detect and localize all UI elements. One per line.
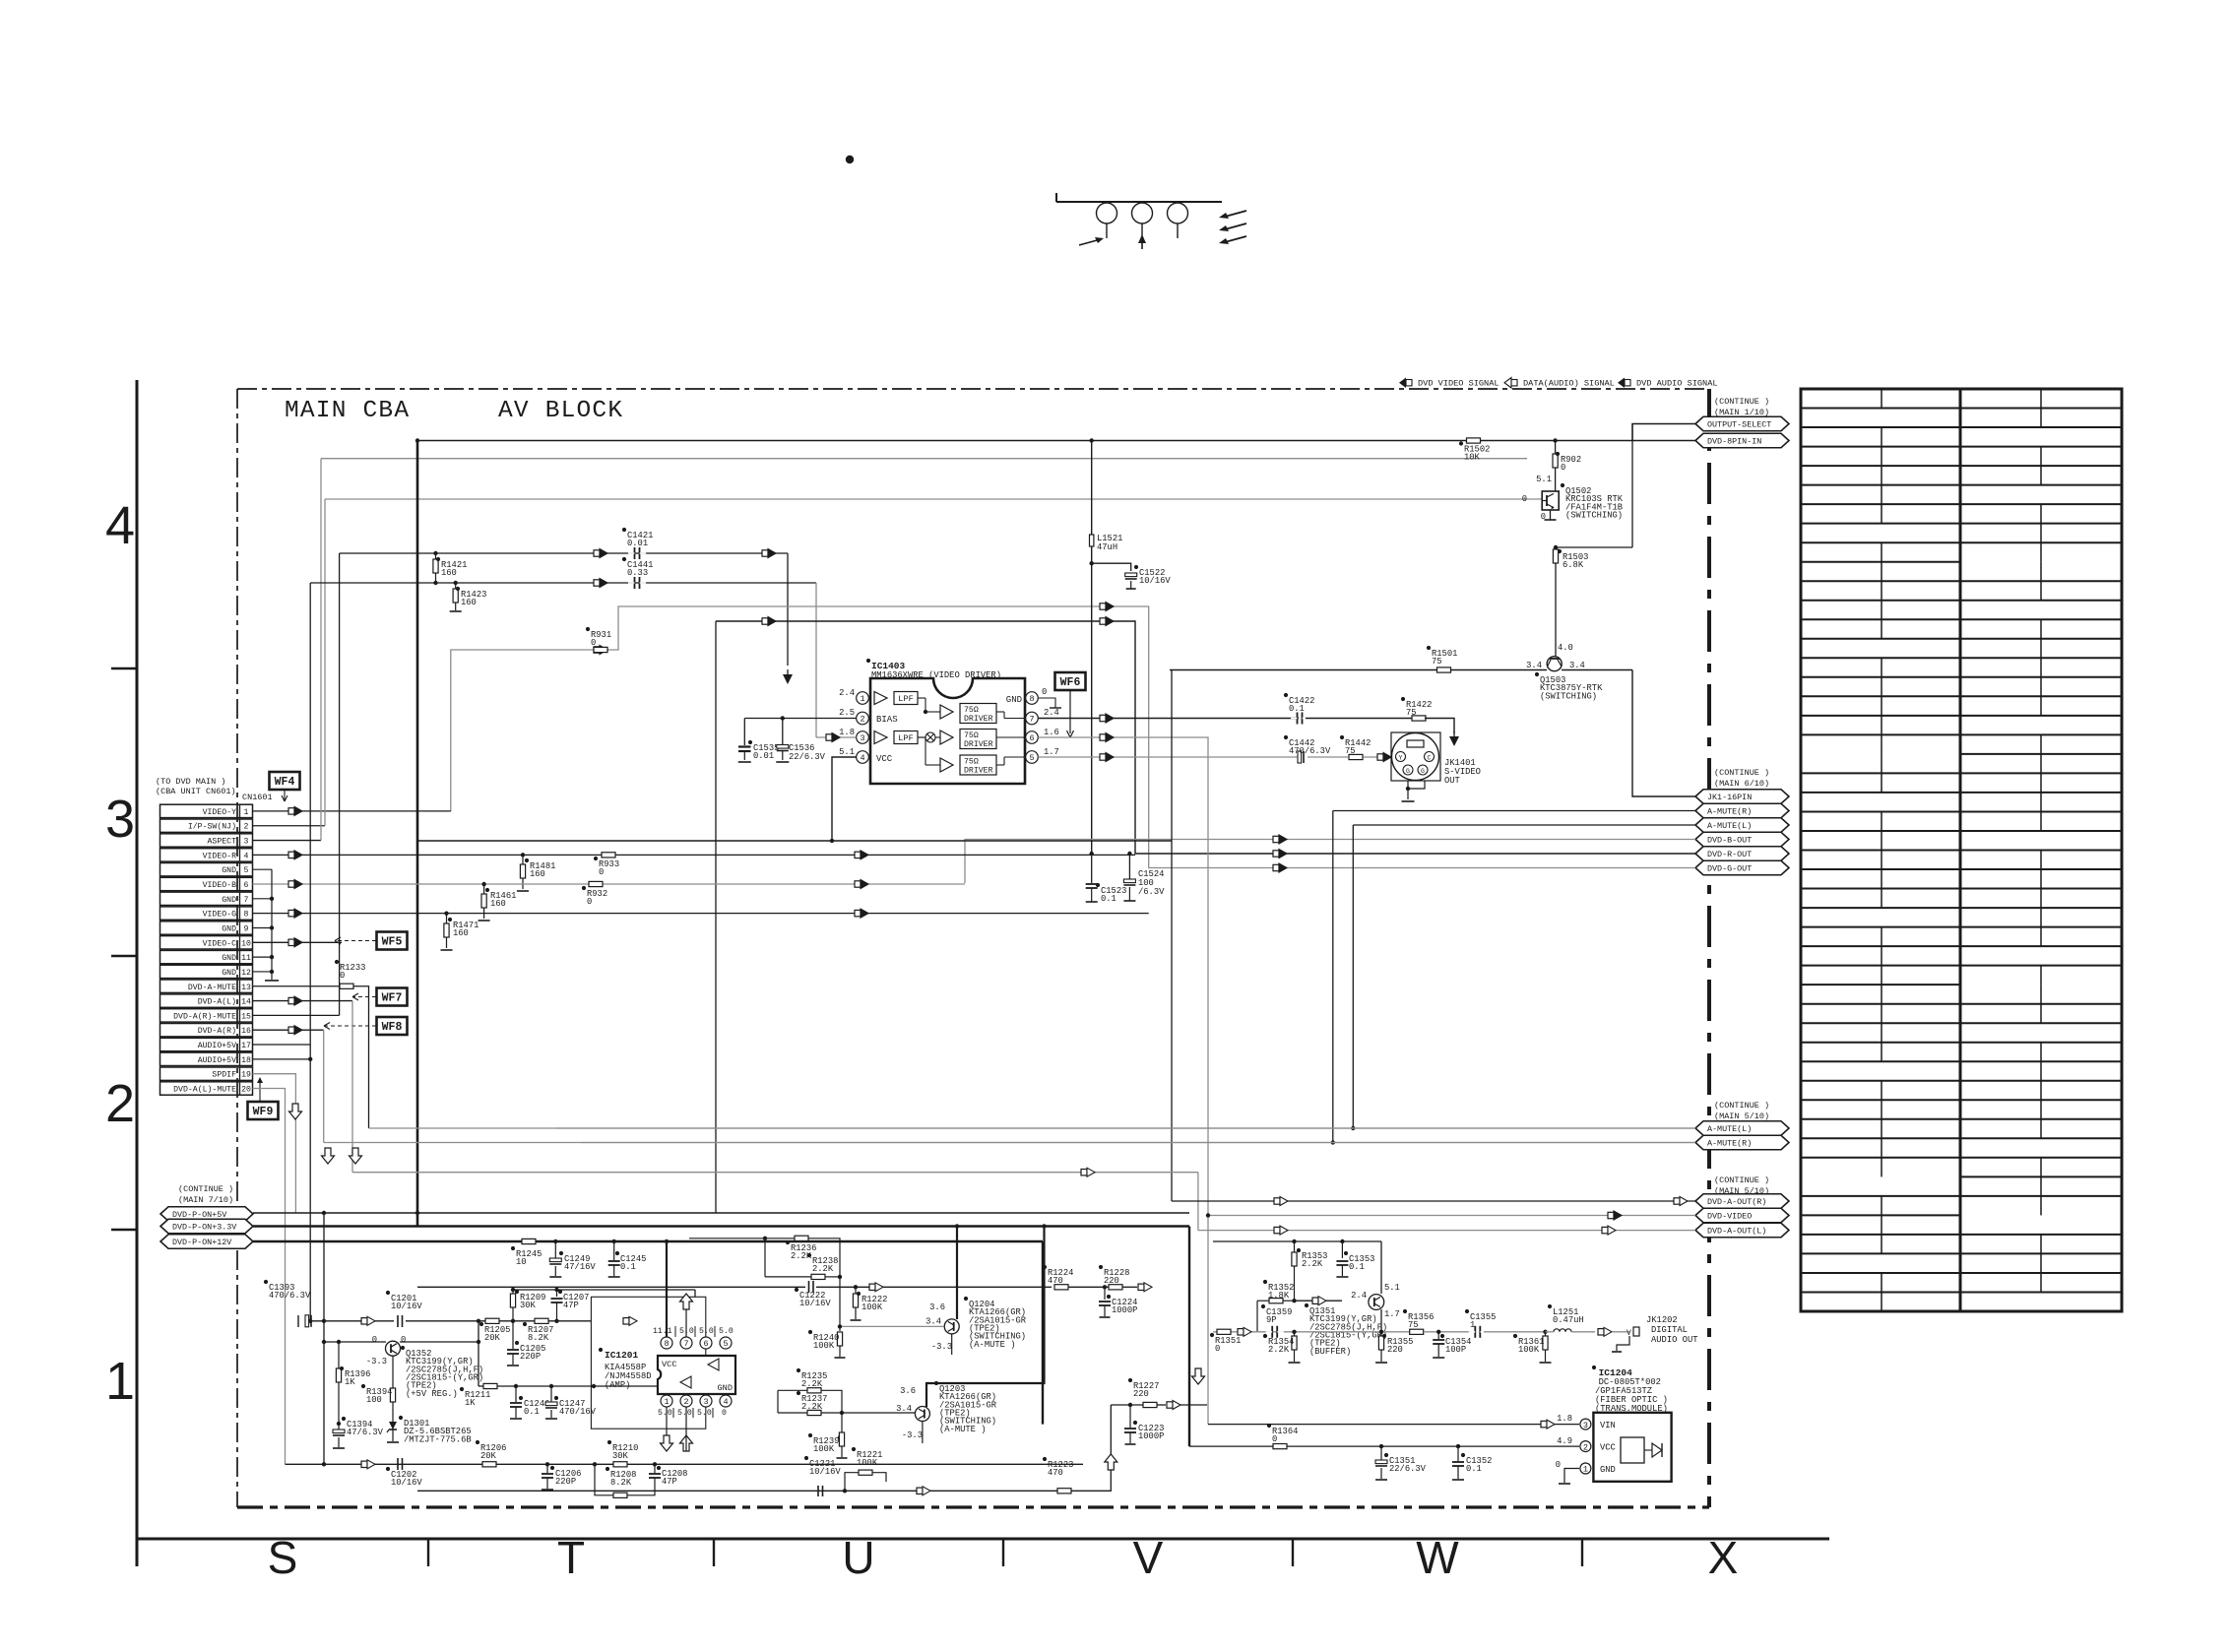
arrow into IC1201 box: [623, 1318, 629, 1324]
resistor R1222 100K: [854, 1285, 858, 1289]
capacitor C1205 220P: [512, 1321, 514, 1349]
IC1403 LPF 2: [894, 731, 918, 744]
resistor R1461 160: [481, 882, 485, 886]
svg-text:(CONTINUE ): (CONTINUE ): [1714, 397, 1769, 407]
svg-text:4.0: 4.0: [1558, 643, 1573, 653]
capacitor C1246 0.1: [514, 1384, 518, 1388]
svg-text:A-MUTE(R): A-MUTE(R): [1707, 807, 1752, 817]
capacitor C1536 22/6.3V: [781, 716, 785, 720]
svg-text:WF7: WF7: [382, 992, 403, 1005]
IC1201 pin 4: [720, 1395, 732, 1407]
svg-text:BIAS: BIAS: [876, 715, 898, 725]
top icon up arrow: [1141, 241, 1143, 249]
capacitor C1208 47P: [653, 1462, 657, 1466]
svg-text:3.6: 3.6: [929, 1303, 945, 1312]
capacitor C1421 0.01: [634, 547, 636, 559]
wire A-MUTE verticals: [1332, 811, 1334, 1143]
IC1403 pin3 wire: [816, 736, 857, 738]
resistor R1205 20K: [485, 1318, 499, 1323]
svg-text:220: 220: [1387, 1345, 1403, 1355]
svg-text:75: 75: [1432, 657, 1442, 667]
wire DVD-P-ON+3.3V rail: [253, 1225, 1189, 1227]
resistor R1228 220: [1109, 1285, 1122, 1290]
wire pin6 VIDEO-B row: [253, 883, 966, 885]
svg-text:DATA(AUDIO) SIGNAL: DATA(AUDIO) SIGNAL: [1523, 379, 1615, 389]
svg-text:2.5: 2.5: [839, 708, 855, 718]
arrow G-out mid: [1100, 604, 1106, 609]
svg-text:8: 8: [244, 911, 249, 920]
IC1201 pin2 up arrow: [680, 1435, 693, 1451]
capacitor C1354 100P: [1436, 1330, 1440, 1334]
arrow R1228 out: [1138, 1284, 1144, 1290]
svg-text:(SWITCHING): (SWITCHING): [1540, 691, 1597, 701]
svg-text:(SWITCHING): (SWITCHING): [1565, 511, 1623, 521]
svg-text:(AMP): (AMP): [605, 1380, 630, 1390]
resistor R1354 2.2K: [1294, 1332, 1296, 1336]
capacitor C1222 10/16V: [808, 1281, 810, 1293]
svg-text:OUT: OUT: [1444, 776, 1460, 786]
svg-text:VIDEO-B: VIDEO-B: [203, 881, 236, 890]
revision dot mark: [846, 156, 854, 163]
IC1201 pin 3: [700, 1395, 712, 1407]
ground bus for GND pins: [253, 868, 273, 870]
arrow audio row: [869, 1284, 875, 1290]
svg-text:5.1: 5.1: [1536, 475, 1552, 484]
svg-text:VIDEO-R: VIDEO-R: [203, 852, 236, 860]
svg-text:12: 12: [241, 969, 251, 978]
svg-text:9P: 9P: [1266, 1315, 1277, 1325]
svg-text:16: 16: [241, 1027, 251, 1036]
svg-text:2.4: 2.4: [839, 688, 855, 698]
svg-text:(CONTINUE ): (CONTINUE ): [178, 1184, 233, 1194]
wire Q1502 base net: [321, 458, 1527, 460]
arrow on Y run: [594, 550, 600, 556]
svg-text:4: 4: [105, 496, 135, 555]
arrow G-out right: [1273, 864, 1279, 870]
arrow B-out: [1273, 836, 1279, 842]
svg-text:100P: 100P: [1445, 1345, 1466, 1355]
svg-text:/6.3V: /6.3V: [1138, 887, 1165, 897]
svg-text:10/16V: 10/16V: [391, 1478, 422, 1488]
svg-text:30K: 30K: [520, 1301, 537, 1310]
svg-text:OUTPUT-SELECT: OUTPUT-SELECT: [1707, 420, 1771, 430]
wire C1441 left leg: [310, 582, 456, 584]
svg-text:GND: GND: [222, 924, 236, 933]
resistor R1240 100K: [839, 1326, 841, 1331]
arrow DVD-A-OUT(L) 2: [1274, 1227, 1280, 1233]
arrow chroma: [762, 618, 768, 624]
svg-text:WF9: WF9: [253, 1106, 274, 1118]
svg-text:14: 14: [241, 998, 251, 1007]
resistor R1421 160: [433, 551, 437, 555]
svg-text:22/6.3V: 22/6.3V: [1389, 1464, 1427, 1474]
capacitor C1221 10/16V: [817, 1486, 819, 1496]
svg-text:VIN: VIN: [1600, 1421, 1616, 1430]
svg-text:4: 4: [723, 1397, 728, 1407]
svg-text:DVD AUDIO SIGNAL: DVD AUDIO SIGNAL: [1636, 379, 1718, 389]
svg-text:13: 13: [241, 984, 251, 992]
waveform box WF4: [270, 772, 300, 790]
svg-text:75: 75: [1345, 746, 1356, 756]
net flag DVD-VIDEO: [1695, 1208, 1789, 1223]
wire pin8 VIDEO-G row: [253, 913, 1149, 915]
svg-text:DVD-R-OUT: DVD-R-OUT: [1707, 850, 1752, 859]
net flag A-MUTE(L) lower: [1695, 1121, 1789, 1136]
resistor R1481 160: [521, 853, 525, 857]
svg-text:/MTZJT-775.6B: /MTZJT-775.6B: [404, 1434, 472, 1444]
net flag DVD-G-OUT: [1695, 860, 1789, 875]
svg-text:2.2K: 2.2K: [1302, 1259, 1323, 1269]
resistor R1207 8.2K: [535, 1318, 548, 1323]
svg-text:W: W: [1416, 1532, 1459, 1583]
svg-text:0: 0: [722, 1409, 727, 1418]
svg-text:100: 100: [366, 1395, 382, 1405]
net flag A-MUTE(L) upper: [1695, 818, 1789, 833]
wire C1201 row: [406, 1320, 489, 1322]
svg-text:WF8: WF8: [382, 1021, 403, 1034]
svg-text:220P: 220P: [520, 1352, 541, 1362]
IC1403 pin 2: [857, 712, 869, 725]
resistor R1422 75: [1306, 718, 1412, 720]
resistor R1210 30K: [613, 1462, 627, 1467]
wire Q1203 collector: [926, 1227, 1045, 1408]
svg-text:2: 2: [1583, 1442, 1588, 1452]
wire Q1203 base row: [842, 1412, 915, 1414]
resistor R1238 2.2K: [811, 1274, 825, 1279]
net flag DVD-P-ON+3.3V: [160, 1219, 253, 1234]
svg-text:C: C: [1428, 755, 1432, 762]
svg-text:470/6.3V: 470/6.3V: [1289, 746, 1331, 756]
wire pin18 AUDIO+5V: [253, 1058, 311, 1060]
svg-text:3.6: 3.6: [900, 1386, 916, 1396]
waveform box WF9: [248, 1102, 279, 1119]
wire pin19 SPDIF: [253, 1074, 296, 1213]
svg-text:(A-MUTE ): (A-MUTE ): [939, 1425, 987, 1434]
wire IC1403 pin7 out: [1039, 718, 1300, 720]
svg-text:5.0: 5.0: [719, 1327, 734, 1336]
IC1403 internal wiring: [918, 697, 925, 699]
IC1403 75ohm driver 3: [960, 755, 996, 775]
svg-text:160: 160: [461, 598, 477, 607]
svg-text:2: 2: [683, 1397, 688, 1407]
svg-text:2.4: 2.4: [1044, 708, 1059, 718]
svg-text:DRIVER: DRIVER: [964, 715, 993, 724]
resistor R1223 470: [1057, 1489, 1071, 1493]
IC1204 pin 1: [1580, 1463, 1591, 1474]
svg-text:10/16V: 10/16V: [809, 1467, 841, 1477]
resistor R1237 2.2K: [807, 1410, 821, 1415]
wire IC1403 pin6 out: [1039, 737, 1696, 1216]
svg-text:10K: 10K: [1464, 453, 1481, 463]
svg-text:GND: GND: [718, 1383, 733, 1393]
svg-text:4.9: 4.9: [1557, 1436, 1572, 1446]
svg-text:VIDEO-C: VIDEO-C: [203, 939, 236, 948]
svg-text:5.0: 5.0: [658, 1409, 672, 1418]
arrow R-out right: [1273, 851, 1279, 857]
IC1403 mixer: [925, 732, 935, 742]
resistor R1394 100: [392, 1356, 394, 1388]
svg-text:0: 0: [591, 638, 596, 648]
capacitor C1441 0.33: [634, 577, 636, 589]
svg-text:220: 220: [1104, 1276, 1119, 1286]
svg-text:0: 0: [599, 867, 604, 877]
svg-text:GND: GND: [222, 896, 236, 905]
wire pin20: [253, 1088, 286, 1464]
wire DVD-P-ON+5V rail: [253, 1212, 1189, 1214]
capacitor C1422 0.1: [1297, 713, 1299, 725]
arrow DVD-A-OUT(L) 3: [1602, 1227, 1608, 1233]
svg-text:160: 160: [441, 568, 457, 578]
svg-text:470: 470: [1048, 1468, 1063, 1478]
resistor R1471 160: [444, 911, 448, 915]
arrow JK1202: [1598, 1329, 1604, 1335]
svg-text:DVD-A(L): DVD-A(L): [198, 997, 236, 1007]
svg-text:0.47uH: 0.47uH: [1553, 1315, 1584, 1325]
IC1403 pin 1: [857, 692, 869, 705]
svg-text:S: S: [268, 1532, 298, 1583]
svg-text:100K: 100K: [813, 1444, 835, 1454]
svg-text:(+5V REG.): (+5V REG.): [406, 1389, 458, 1399]
svg-text:100K: 100K: [857, 1458, 878, 1468]
capacitor C1249 47/16V: [553, 1239, 557, 1243]
arrow Q1351 base: [1312, 1298, 1318, 1303]
svg-text:100K: 100K: [861, 1303, 883, 1312]
IC1201 pin 1: [661, 1395, 672, 1407]
resistor R1224 470: [1054, 1285, 1068, 1290]
IC1201 pin 7: [680, 1337, 692, 1349]
svg-text:-3.3: -3.3: [931, 1342, 952, 1352]
resistor R1364 0: [1273, 1444, 1287, 1449]
IC1201 DIP body: [658, 1356, 735, 1394]
svg-text:3.4: 3.4: [896, 1404, 912, 1414]
IC1403 pin 6: [1026, 731, 1039, 744]
svg-text:3: 3: [1583, 1421, 1588, 1430]
svg-text:5.0: 5.0: [677, 1409, 692, 1418]
capacitor C1535 0.01: [861, 718, 863, 720]
svg-text:DVD-VIDEO: DVD-VIDEO: [1707, 1212, 1752, 1222]
resistor R1396 1K: [338, 1342, 340, 1368]
resistor R1239 100K: [838, 1435, 842, 1439]
svg-text:0.1: 0.1: [620, 1262, 636, 1272]
svg-text:2.4: 2.4: [1351, 1291, 1367, 1301]
IC1201 pin1 down arrow: [661, 1435, 673, 1451]
JK1401 ground: [1407, 781, 1409, 789]
wire R1205 row: [495, 1320, 537, 1322]
wire R1235/R1237 loop: [778, 1389, 807, 1391]
wire A-MUTE(L) lower run: [556, 1127, 1695, 1129]
IC1403 75ohm driver 1: [960, 704, 996, 724]
svg-text:1.8: 1.8: [1557, 1414, 1572, 1424]
IC1403 driver amp 3: [940, 758, 953, 772]
svg-text:0: 0: [1556, 1460, 1561, 1470]
capacitor C1201 10/16V: [397, 1315, 399, 1327]
connector JK1401 S-VIDEO OUT: [1391, 732, 1440, 781]
svg-text:GND: GND: [222, 866, 236, 875]
svg-text:3.4: 3.4: [1526, 661, 1542, 670]
resistor R1206 20K: [482, 1462, 496, 1467]
svg-text:MAIN CBA: MAIN CBA: [285, 398, 410, 424]
svg-text:5: 5: [723, 1339, 728, 1349]
svg-text:220P: 220P: [555, 1477, 576, 1487]
svg-text:DIGITAL: DIGITAL: [1651, 1325, 1688, 1335]
svg-text:5.1: 5.1: [1384, 1283, 1400, 1293]
wire Q1203 emitter: [922, 1422, 924, 1444]
capacitor C1245 0.1: [612, 1239, 616, 1243]
svg-text:8: 8: [1029, 694, 1034, 704]
svg-text:470: 470: [1048, 1276, 1063, 1286]
wire A-MUTE(L) upper run: [1353, 824, 1695, 826]
arrow pin5 out: [1100, 754, 1106, 760]
resistor R1503 6.8K: [1554, 545, 1558, 549]
resistor R1233 0: [253, 985, 341, 987]
svg-text:1.8: 1.8: [839, 728, 855, 737]
svg-text:0.01: 0.01: [627, 539, 648, 548]
svg-text:1: 1: [1583, 1465, 1588, 1475]
resistor R1442 75: [1349, 754, 1363, 759]
svg-text:A-MUTE(L): A-MUTE(L): [1707, 821, 1752, 831]
capacitor C1247 470/16V: [549, 1384, 553, 1388]
svg-text:11: 11: [241, 954, 251, 963]
waveform box WF6: [1055, 672, 1086, 690]
transistor Q1503 KTC3875Y: [1547, 657, 1562, 671]
wire top rail 1262 right: [1213, 1240, 1381, 1242]
svg-text:LPF: LPF: [898, 694, 913, 704]
svg-text:3: 3: [703, 1397, 708, 1407]
transistor Q1204 A-MUTE switch: [944, 1319, 959, 1334]
svg-text:160: 160: [453, 928, 469, 938]
svg-text:DVD-A(L)-MUTE: DVD-A(L)-MUTE: [173, 1084, 236, 1094]
capacitor C1524 100/6.3V: [1128, 854, 1130, 879]
svg-text:6: 6: [244, 881, 249, 890]
svg-text:0.01: 0.01: [753, 751, 774, 761]
wire pin16 DVD-A(R): [253, 1029, 324, 1031]
IC1403 pin 4: [857, 751, 869, 764]
svg-text:I/P-SW(NJ): I/P-SW(NJ): [188, 822, 236, 832]
svg-text:JK1202: JK1202: [1646, 1315, 1678, 1325]
arrow on Y run 2: [762, 550, 768, 556]
svg-text:-3.3: -3.3: [902, 1430, 923, 1440]
svg-text:5.0: 5.0: [697, 1409, 712, 1418]
IC1403 pin4 VCC wire: [832, 757, 857, 841]
svg-text:1: 1: [664, 1397, 669, 1407]
transistor Q1351 buffer: [1369, 1295, 1384, 1310]
capacitor C1206 220P: [545, 1462, 549, 1466]
svg-text:7: 7: [244, 896, 249, 905]
IC1403 pin 7: [1026, 712, 1039, 725]
main CBA boundary top: [237, 388, 1709, 390]
svg-text:VIDEO-G: VIDEO-G: [203, 911, 236, 920]
capacitor C1353 0.1: [1340, 1239, 1344, 1243]
svg-text:DVD VIDEO SIGNAL: DVD VIDEO SIGNAL: [1418, 379, 1499, 389]
svg-text:-3.3: -3.3: [366, 1357, 387, 1366]
capacitor C1522 10/16V: [1092, 563, 1131, 571]
wire A-MUTE(R) lower run: [581, 1142, 1695, 1144]
svg-text:3.4: 3.4: [925, 1317, 941, 1327]
wire B-out path: [965, 840, 1695, 884]
IC1403 pin 5: [1026, 751, 1039, 764]
wire Q1204 emitter: [951, 1334, 953, 1355]
svg-text:AUDIO OUT: AUDIO OUT: [1651, 1335, 1698, 1345]
svg-text:5: 5: [1029, 753, 1034, 763]
svg-text:DRIVER: DRIVER: [964, 767, 993, 776]
main CBA boundary bottom: [237, 1505, 1709, 1508]
resistor R1351 0: [1217, 1329, 1231, 1334]
arrow into pin3: [826, 734, 832, 740]
arrow bottom audio row: [917, 1488, 923, 1493]
top icon arrow into pin: [1079, 239, 1101, 245]
wire pin14 DVD-A(L): [253, 1000, 353, 1002]
top connector icon: [1055, 193, 1057, 202]
svg-text:A-MUTE(L): A-MUTE(L): [1707, 1124, 1752, 1134]
IC1201 amp B: [680, 1376, 691, 1388]
resistor R1209 30K: [511, 1319, 515, 1323]
resistor R1361 100K: [1543, 1330, 1547, 1334]
wire +3.3 corner down: [1188, 1227, 1190, 1447]
main CBA boundary left: [236, 389, 238, 1507]
svg-text:1: 1: [860, 694, 864, 704]
svg-text:1: 1: [1470, 1320, 1475, 1330]
wire mid row 1408: [478, 1385, 483, 1387]
svg-text:VCC: VCC: [876, 754, 893, 764]
IC1403 driver amp 1: [940, 705, 953, 719]
svg-text:3: 3: [105, 790, 135, 849]
svg-text:ASPECT: ASPECT: [208, 838, 237, 847]
wire +12 rail to IC1201 pin8: [666, 1241, 668, 1337]
arrow into JK1401 Y: [1377, 754, 1383, 760]
svg-text:20K: 20K: [480, 1451, 497, 1461]
svg-text:LPF: LPF: [898, 733, 913, 743]
svg-text:0: 0: [1561, 463, 1565, 473]
wire x1190 vertical: [1171, 670, 1173, 1202]
svg-text:3: 3: [244, 838, 249, 847]
svg-text:7: 7: [1029, 715, 1034, 725]
svg-text:5.0: 5.0: [699, 1327, 714, 1336]
capacitor C1223 1000P: [1124, 1428, 1136, 1430]
svg-text:DRIVER: DRIVER: [964, 740, 993, 749]
svg-text:0.1: 0.1: [524, 1407, 540, 1417]
svg-text:6.8K: 6.8K: [1563, 560, 1584, 570]
wire +12 branch to IC1201 pin8: [665, 1239, 669, 1243]
wire Q1204 collector bus: [956, 1227, 958, 1320]
svg-text:1: 1: [105, 1352, 135, 1411]
svg-text:20: 20: [241, 1085, 251, 1094]
IC1403 input amp 3: [874, 731, 887, 744]
svg-text:10/16V: 10/16V: [1139, 576, 1171, 586]
net flag DVD-P-ON+5V: [160, 1207, 253, 1222]
svg-text:10/16V: 10/16V: [799, 1299, 831, 1308]
svg-text:6: 6: [1029, 733, 1034, 743]
IC1201 pin 5: [720, 1337, 732, 1349]
connector JK1202 DIGITAL AUDIO OUT: [1613, 1331, 1629, 1333]
svg-text:WF6: WF6: [1060, 676, 1081, 689]
svg-text:1000P: 1000P: [1138, 1431, 1164, 1441]
arrow DVD-VIDEO: [1608, 1212, 1614, 1218]
svg-text:(BUFFER): (BUFFER): [1309, 1347, 1351, 1357]
diode D1301 zener: [392, 1420, 394, 1430]
wire pin4 VIDEO-R row: [253, 854, 1136, 856]
svg-text:47uH: 47uH: [1097, 542, 1117, 552]
svg-text:A-MUTE(R): A-MUTE(R): [1707, 1139, 1752, 1149]
resistor R902 0: [1553, 438, 1557, 442]
svg-text:G: G: [1421, 768, 1425, 775]
arrow R931 path: [594, 647, 600, 653]
inductor L1251 0.47uH: [1554, 1329, 1571, 1332]
waveform box WF8: [377, 1017, 408, 1035]
resistor R1208 8.2K: [613, 1493, 627, 1497]
wire chroma path black: [716, 621, 1695, 854]
svg-text:DVD-A-MUTE: DVD-A-MUTE: [188, 984, 236, 992]
svg-text:18: 18: [241, 1056, 251, 1065]
